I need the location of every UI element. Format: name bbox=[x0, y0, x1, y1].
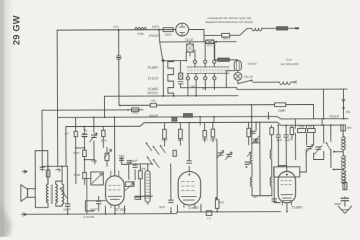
svg-text:0,1M: 0,1M bbox=[309, 124, 315, 128]
mid vertical resistors bbox=[163, 129, 167, 138]
resistor (138.2,170.5-178.5) bbox=[138, 171, 142, 179]
svg-text:1nF: 1nF bbox=[64, 131, 69, 135]
terminal strip bbox=[187, 67, 230, 74]
volume pot bbox=[126, 182, 135, 187]
IFT winding B2 bbox=[270, 177, 272, 187]
wire: PSU left bypass bbox=[226, 71, 235, 88]
plug tip bbox=[296, 27, 298, 29]
wire: lamp leads bbox=[237, 71, 239, 84]
wire: pot/choke column bbox=[129, 164, 153, 179]
bottom bus arrow bbox=[21, 213, 27, 216]
svg-text:p=2V/1W: p=2V/1W bbox=[83, 215, 94, 219]
wire: right verticals from line bbox=[324, 89, 344, 119]
svg-text:0,1: 0,1 bbox=[207, 216, 211, 220]
svg-text:50kΩ: 50kΩ bbox=[202, 137, 208, 141]
svg-text:5kΩ: 5kΩ bbox=[141, 167, 146, 171]
wire: PSU vertical bbox=[203, 29, 205, 41]
svg-text:μF50: μF50 bbox=[276, 138, 282, 141]
svg-text:10,3: 10,3 bbox=[113, 25, 119, 29]
svg-text:VGL.IR: VGL.IR bbox=[244, 75, 253, 79]
IFT cap cluster bbox=[245, 162, 250, 164]
selector loops lower bbox=[279, 82, 290, 85]
resistor on x=84.3 upper bbox=[83, 150, 87, 156]
wire: comb right vertical bbox=[179, 61, 181, 88]
svg-text:(1kΩ): (1kΩ) bbox=[73, 151, 80, 155]
mains loops bbox=[252, 28, 263, 30]
speaker cone bbox=[21, 185, 28, 202]
resistor on L5 bbox=[132, 108, 139, 112]
wire: left vertical bbox=[56, 30, 59, 166]
svg-text:UBF11: UBF11 bbox=[188, 206, 199, 210]
wave switch diagonals bbox=[147, 144, 166, 168]
switch contacts lower-left bbox=[61, 189, 67, 198]
IFT contact bbox=[249, 151, 251, 153]
trimmers left of IFT bbox=[218, 153, 223, 155]
field coil bbox=[62, 184, 64, 205]
wire: vertical x=119 bbox=[118, 30, 120, 105]
trimmer cap above bbox=[254, 139, 259, 141]
wire: tube3 connections bbox=[278, 166, 287, 172]
svg-text:1nF: 1nF bbox=[281, 108, 286, 112]
svg-text:UY11: UY11 bbox=[185, 38, 194, 42]
svg-text:4,003: 4,003 bbox=[152, 25, 159, 29]
svg-text:Drähte der Netzspannung umgele: Drähte der Netzspannung umgelegt bbox=[205, 20, 253, 24]
socket circles row2 bbox=[186, 77, 189, 80]
svg-text:μF50: μF50 bbox=[284, 138, 290, 141]
resistor on L4 right bbox=[275, 103, 286, 107]
svg-text:050: 050 bbox=[151, 98, 156, 102]
capacitor on x=119 bbox=[117, 55, 121, 59]
IFT winding A1 bbox=[250, 153, 252, 163]
wire: jog to mains line bbox=[230, 28, 252, 35]
svg-text:2700: 2700 bbox=[118, 154, 124, 158]
cap bottom bbox=[136, 197, 141, 199]
box near tube1 cathode bbox=[85, 201, 105, 211]
tube UBF11 (IF) envelope bbox=[178, 171, 201, 205]
svg-text:S.P.R.F.: S.P.R.F. bbox=[248, 62, 258, 66]
speaker driver bbox=[28, 189, 36, 198]
tube UBF11 (det) envelope bbox=[278, 171, 296, 203]
junction dot B bbox=[158, 29, 160, 31]
resistor R3 dark bbox=[218, 58, 230, 61]
wire: vertical x=159.3 jog bbox=[159, 30, 163, 96]
grid cap tube2 bbox=[187, 161, 192, 163]
bottom-left corner smudge bbox=[0, 203, 12, 237]
switch contact dot bbox=[251, 80, 253, 82]
wire: PSU row y=35.4 bbox=[204, 34, 222, 36]
svg-text:UCH11: UCH11 bbox=[147, 90, 158, 94]
PSU resistor R2 bbox=[222, 33, 230, 37]
FRONT-END block bbox=[56, 129, 192, 202]
wire: to voltage selector bbox=[253, 81, 293, 83]
SPEAKER + OUTPUT TRANSFORMER bbox=[21, 165, 70, 216]
svg-text:10kΩ: 10kΩ bbox=[161, 138, 167, 142]
svg-text:10kΩ: 10kΩ bbox=[132, 111, 138, 115]
svg-text:UBF11: UBF11 bbox=[147, 65, 158, 69]
wire: top mains line bbox=[57, 28, 204, 31]
svg-text:29 GW: 29 GW bbox=[11, 15, 21, 45]
svg-text:0,3M: 0,3M bbox=[178, 138, 184, 142]
RIGHT BLOCK bbox=[270, 124, 352, 213]
svg-text:50μ: 50μ bbox=[201, 86, 206, 89]
wire: x=291.8 stub bbox=[291, 125, 293, 139]
mains dropper resistor dark bbox=[277, 27, 288, 30]
left page-edge shading bbox=[0, 0, 14, 237]
pickup arrow bbox=[56, 169, 61, 172]
wire: mid stubs from second bus bbox=[163, 123, 165, 146]
dial lamp bbox=[234, 72, 242, 80]
svg-text:μF500: μF500 bbox=[129, 159, 137, 163]
rectifier tube UY11 bbox=[176, 23, 189, 36]
transformer winding P bbox=[46, 184, 48, 203]
coil L1 on mains line bbox=[135, 27, 147, 29]
taps bbox=[334, 152, 344, 170]
volume pot box bbox=[91, 172, 104, 185]
winding C bbox=[343, 170, 345, 184]
wire: x=104.5 down bbox=[103, 96, 105, 117]
wire: PSU row y=41.8 bbox=[160, 41, 236, 43]
svg-text:μ5000: μ5000 bbox=[334, 202, 342, 206]
barretter bbox=[234, 61, 241, 71]
resistor on L4 left bbox=[150, 103, 156, 107]
X-box capacitor bbox=[187, 44, 194, 52]
svg-text:UCL11: UCL11 bbox=[115, 208, 126, 212]
resistor above transformer bbox=[46, 170, 50, 177]
svg-text:μ5000: μ5000 bbox=[63, 207, 71, 211]
wire: corner 42,110 bbox=[41, 110, 43, 168]
trimmer at (106-112,148-156) bbox=[104, 149, 112, 158]
svg-text:0,1A: 0,1A bbox=[207, 44, 213, 48]
svg-text:μF5000: μF5000 bbox=[149, 113, 158, 117]
junction dots bbox=[119, 104, 121, 106]
TUBES bbox=[105, 167, 299, 208]
wire: barretter feed bbox=[215, 42, 238, 61]
resistor (104.8,152.8-160.2) bbox=[105, 153, 109, 160]
socket circles row1 bbox=[193, 60, 196, 63]
svg-text:150Ω: 150Ω bbox=[165, 33, 172, 37]
IFT winding A2 bbox=[250, 177, 252, 187]
wire: second bus jogging bbox=[66, 122, 344, 127]
svg-text:μF5000μ: μF5000μ bbox=[328, 114, 339, 118]
wire: left area lines bbox=[42, 165, 67, 167]
resistor on x=84.3 lower bbox=[83, 172, 87, 178]
wire: heater return y=95.8 bbox=[104, 95, 237, 98]
svg-text:UBF11: UBF11 bbox=[291, 205, 302, 209]
dark cap on x=84.3 bbox=[82, 134, 87, 136]
resistor bottom right bbox=[343, 182, 347, 189]
dark resistor y=112 bbox=[184, 114, 193, 118]
dot bbox=[215, 41, 217, 43]
wire: L4 y=105 bbox=[120, 105, 314, 120]
svg-text:50μ: 50μ bbox=[190, 84, 195, 87]
junction dot A bbox=[118, 29, 120, 31]
comb-side electrolytic cluster bbox=[179, 73, 183, 79]
arrow tap bbox=[293, 81, 297, 83]
wire: heater top line bbox=[163, 60, 187, 62]
svg-text:Bei 110V werden die punktierte: Bei 110V werden die punktierten bbox=[207, 16, 250, 20]
svg-text:UCL11: UCL11 bbox=[147, 76, 158, 80]
svg-text:(M,Ω): (M,Ω) bbox=[73, 173, 80, 177]
trimmer cap on x=93.8 bbox=[91, 135, 96, 138]
svg-text:0k4Ω: 0k4Ω bbox=[91, 159, 97, 163]
winding B bbox=[343, 155, 345, 169]
svg-text:45kΩ: 45kΩ bbox=[298, 124, 304, 128]
core bbox=[51, 185, 52, 204]
resistor on x=103.2 bbox=[102, 130, 105, 136]
fuse bbox=[206, 40, 214, 44]
svg-text:UBF11: UBF11 bbox=[148, 87, 159, 91]
wire: link y=159.2 bbox=[85, 160, 95, 164]
svg-text:10kΩ: 10kΩ bbox=[210, 137, 216, 141]
wire: front-end verticals bbox=[65, 127, 67, 166]
svg-text:μF50: μF50 bbox=[158, 205, 165, 209]
svg-text:30kΩ: 30kΩ bbox=[137, 32, 144, 36]
IF TRANSFORMERS center bbox=[217, 131, 272, 187]
IFT winding B1 bbox=[270, 149, 272, 159]
cap bottom right bbox=[341, 198, 349, 201]
wire: main bus y=116.8 bbox=[58, 116, 348, 120]
wire: socket stems bbox=[195, 42, 214, 60]
tube UCL11 envelope bbox=[105, 176, 124, 206]
wire: tube2 verticals bbox=[170, 164, 172, 212]
transformer winding S bbox=[56, 184, 58, 203]
wire: L5 y=109.6 bbox=[42, 109, 143, 111]
earth arrow bbox=[338, 204, 352, 214]
cap rect on x=75.6 bbox=[74, 131, 77, 137]
svg-text:0,1A: 0,1A bbox=[286, 58, 292, 62]
resistor R1 bbox=[163, 28, 173, 32]
small dark rect on bus bbox=[172, 118, 177, 121]
winding A bbox=[343, 136, 345, 150]
svg-text:2kΩ: 2kΩ bbox=[219, 200, 224, 204]
wire: tube1 bottom leads bbox=[105, 206, 124, 214]
shield box tube3 bbox=[274, 167, 300, 177]
svg-text:0kΩ: 0kΩ bbox=[347, 126, 352, 130]
wire: right transformer column bbox=[342, 125, 344, 155]
svg-text:0k05: 0k05 bbox=[100, 138, 106, 142]
wire: heater comb bbox=[168, 61, 174, 96]
caps cluster near 119-131 bbox=[119, 158, 123, 160]
wire: h-link 75.6-84.3 y=147.4 bbox=[76, 147, 85, 149]
COMPONENTS top row bbox=[117, 22, 345, 110]
cap to bus bbox=[65, 204, 70, 206]
trimmer box on spine bbox=[341, 125, 346, 131]
tall narrow choke bbox=[145, 171, 150, 203]
switch arm bbox=[238, 80, 251, 83]
down arrow on x=343.5 bbox=[342, 99, 345, 102]
wire: bottom bus bbox=[27, 212, 281, 215]
svg-text:μ50: μ50 bbox=[253, 195, 258, 199]
wire: IF transformer bbox=[252, 105, 272, 196]
COMPONENTS mid band bbox=[75, 103, 345, 161]
BOTTOM components bbox=[96, 197, 287, 216]
svg-text:bei 220V-240V: bei 220V-240V bbox=[281, 62, 299, 66]
cap at tube1 grid bbox=[133, 165, 137, 167]
vert resistors x=271.6, x=291.8 bbox=[270, 128, 274, 135]
svg-text:500: 500 bbox=[345, 110, 350, 114]
cap above transformer bbox=[40, 167, 44, 169]
svg-text:μ5000: μ5000 bbox=[90, 208, 98, 212]
wire: right block bbox=[306, 125, 308, 145]
svg-text:10000μF: 10000μF bbox=[148, 34, 159, 38]
wire: heater line2 y=87.7 stepped bbox=[181, 87, 348, 90]
wire: mains right to dropper bbox=[262, 27, 296, 29]
svg-text:0,5MΩ: 0,5MΩ bbox=[222, 36, 230, 40]
